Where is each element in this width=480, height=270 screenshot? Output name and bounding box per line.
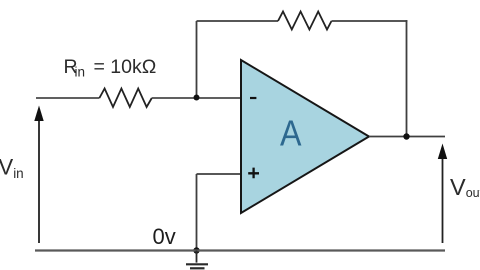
pin - (inverting) — [250, 97, 256, 99]
ground — [186, 251, 208, 269]
svg-text:Vout: Vout — [450, 174, 480, 200]
wire top feedback right segment — [332, 20, 408, 22]
wire output — [369, 136, 445, 138]
arrow Vin — [34, 106, 43, 244]
wire bottom 0v rail — [35, 249, 445, 251]
wire feedback right vertical — [406, 20, 408, 136]
resistor Rin — [99, 89, 151, 108]
node ground junction — [193, 247, 199, 253]
node inverting input junction — [194, 95, 200, 101]
wire non-inverting input horizontal — [197, 173, 242, 175]
svg-text:Rin= 10kΩ: Rin= 10kΩ — [64, 56, 157, 80]
svg-text:A: A — [280, 113, 302, 154]
wire feedback left vertical — [196, 21, 198, 98]
arrow Vout — [438, 144, 447, 244]
resistor Rf (feedback) — [278, 12, 332, 30]
wire non-inverting input vertical to ground rail — [196, 174, 198, 251]
wire input segment to op-amp inverting input — [152, 97, 241, 99]
pin + (non-inverting) — [248, 168, 259, 179]
wire input segment left — [36, 97, 99, 99]
wire top feedback left segment — [197, 20, 279, 22]
node output junction — [403, 133, 409, 139]
op-amp A — [241, 60, 369, 213]
svg-text:Vin: Vin — [0, 155, 24, 182]
svg-text:0v: 0v — [153, 224, 176, 249]
